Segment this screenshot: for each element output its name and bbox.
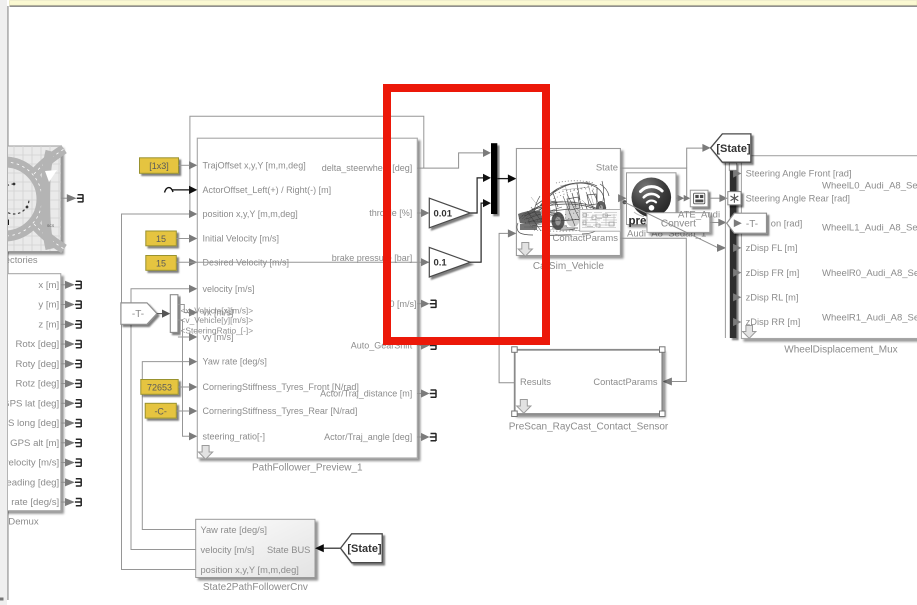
wire RayCast Results to CarSim input 2: [499, 233, 515, 382]
svg-text:WheelR1_Audi_A8_Sedan_1: WheelR1_Audi_A8_Sedan_1: [822, 313, 917, 324]
arrow into CarSim input 2: [508, 229, 517, 237]
svg-text:ActorOffset_Left(+) / Right(-): ActorOffset_Left(+) / Right(-) [m]: [203, 185, 332, 195]
svg-text:Yaw rate [deg/s]: Yaw rate [deg/s]: [201, 525, 268, 535]
block CarSim_Vehicle: [516, 149, 620, 256]
down-arrow badge WheelDisplacement_Mux: [743, 326, 756, 339]
car sketch speckle noise: [522, 181, 610, 231]
svg-text:heading [deg]: heading [deg]: [1, 477, 59, 488]
constant -C-: [145, 403, 176, 418]
svg-text:Actor/Traj_angle [deg]: Actor/Traj_angle [deg]: [324, 432, 412, 442]
svg-text:WheelDisplacement_Mux: WheelDisplacement_Mux: [784, 345, 897, 356]
down-arrow badge CarSim: [518, 243, 532, 257]
svg-text:0.01: 0.01: [434, 208, 453, 219]
svg-text:steering_ratio[-]: steering_ratio[-]: [203, 431, 266, 441]
constant 72653: [141, 380, 178, 395]
svg-text:WheelR0_Audi_A8_Sedan_1: WheelR0_Audi_A8_Sedan_1: [822, 268, 917, 279]
tiny vehicle 2: [0, 231, 5, 236]
terminator Actor/Traj_distance: [417, 389, 436, 397]
svg-text:velocity [m/s]: velocity [m/s]: [4, 458, 59, 469]
left panel divider line: [7, 6, 9, 600]
bus signal labels: [181, 305, 254, 335]
wire delta_steerwheel feedback loop top: [190, 116, 424, 214]
block PreScan_RayCast_Contact_Sensor (selected): [515, 350, 663, 414]
svg-text:[State]: [State]: [347, 543, 382, 555]
svg-text:CorneringStiffness_Tyres_Rear: CorneringStiffness_Tyres_Rear [N/rad]: [203, 406, 358, 416]
arrow diagonal into wheel bar: [717, 244, 726, 252]
svg-text:velocity [m/s]: velocity [m/s]: [201, 545, 255, 555]
svg-text:<x_Vehicle[x][m/s]>: <x_Vehicle[x][m/s]>: [181, 305, 254, 315]
terminator Actor/Traj_angle: [417, 433, 436, 441]
svg-text:Initial Velocity [m/s]: Initial Velocity [m/s]: [203, 234, 280, 244]
svg-text:State2PathFollowerCnv: State2PathFollowerCnv: [203, 582, 308, 593]
STATE block icon: [694, 193, 705, 204]
svg-text:PreScan_RayCast_Contact_Sensor: PreScan_RayCast_Contact_Sensor: [509, 422, 669, 433]
svg-text:<v_Vehicle[y][m/s]>: <v_Vehicle[y][m/s]>: [181, 315, 254, 325]
dashed trajectory arc: [0, 184, 29, 214]
svg-text:on [rad]: on [rad]: [771, 218, 803, 228]
gain 0.1: [429, 247, 470, 277]
demux bar (dark vertical): [730, 162, 737, 338]
wire gain 0.1 to mux: [470, 203, 483, 262]
svg-text:State BUS: State BUS: [267, 545, 310, 555]
Goto tag [State] (top right): [711, 134, 751, 162]
inset schematic thumbnail: [580, 210, 621, 232]
road ring: [0, 162, 42, 236]
svg-text:PathFollower_Preview_1: PathFollower_Preview_1: [252, 463, 363, 474]
arrow inside -T- tag: [734, 219, 742, 227]
wire CarSim to PreScan input: [618, 194, 626, 202]
down-arrow badge PathFollower: [199, 446, 213, 460]
arrow into State BUS (black, pointing left): [315, 544, 324, 552]
car wheels: [552, 212, 565, 230]
From tag -T- (right): [727, 213, 767, 233]
svg-text:brake pressure [bar]: brake pressure [bar]: [332, 253, 413, 263]
arrow into CarSim input 1 (black): [508, 174, 517, 182]
svg-text:zDisp RR [m]: zDisp RR [m]: [746, 317, 801, 327]
svg-text:delta_steerwheel [deg]: delta_steerwheel [deg]: [322, 163, 413, 173]
svg-text:Results: Results: [520, 377, 551, 387]
arrow into RayCast ContactParams: [662, 378, 672, 386]
svg-text:Roty [deg]: Roty [deg]: [15, 359, 59, 370]
svg-text:Actor/Traj_distance [m]: Actor/Traj_distance [m]: [320, 389, 412, 399]
terminator 0 [m/s]: [417, 300, 436, 308]
wire velocity feedback from State2PathFollowerCnv: [131, 289, 196, 550]
car front dark mass: [518, 211, 544, 225]
svg-text:x [m]: x [m]: [38, 280, 59, 291]
wire STATE block output: [708, 197, 720, 199]
svg-text:position x,y,Y [m,m,deg]: position x,y,Y [m,m,deg]: [201, 565, 299, 575]
svg-text:Yaw rate [deg/s]: Yaw rate [deg/s]: [203, 357, 267, 367]
wire -T- to bus selector: [157, 313, 163, 315]
block Demux: [0, 274, 61, 511]
constant [1x3]: [140, 158, 179, 174]
svg-text:-T-: -T-: [132, 309, 144, 320]
block PreScan Audi_A8_Sedan_1: [627, 173, 677, 225]
svg-text:zDisp FR [m]: zDisp FR [m]: [746, 268, 800, 278]
From tag [State] (bottom): [341, 534, 383, 563]
block STATE_Audi_A8_Sedan_1: [690, 190, 708, 207]
wire thin vertical left of bar: [724, 162, 726, 338]
block State2PathFollowerCnv: [196, 519, 315, 577]
wire PreScan output to STATE block: [676, 197, 683, 199]
block Convert: [647, 213, 710, 233]
info bar bottom border: [10, 5, 917, 7]
arrow into gain 0.1: [421, 258, 429, 266]
svg-text:position x,y,Y [m,m,deg]: position x,y,Y [m,m,deg]: [203, 209, 298, 219]
wire position feedback from State2PathFollowerCnv: [122, 214, 196, 570]
mux block (black bar): [491, 143, 497, 214]
wire CarSim ContactParams to RayCast: [620, 238, 686, 381]
arrow mux input 2 (black): [483, 174, 491, 182]
svg-text:Steering Angle Front [rad]: Steering Angle Front [rad]: [746, 169, 852, 179]
terminator Auto_GearShift: [417, 341, 436, 349]
svg-text:rate [deg/s]: rate [deg/s]: [11, 497, 59, 508]
terminator after Trajectories: [77, 194, 83, 202]
arrow into bus selector: [162, 310, 170, 318]
svg-text:GPS lat [deg]: GPS lat [deg]: [2, 398, 59, 409]
wire State output of CarSim: [620, 168, 686, 198]
small cell block on bar: [729, 163, 736, 171]
input port arrows: [189, 161, 197, 440]
svg-text:15: 15: [156, 259, 166, 269]
svg-text:Rotz [deg]: Rotz [deg]: [15, 379, 59, 390]
wire gain 0.01 to mux: [470, 178, 483, 213]
bus selector: [170, 295, 178, 333]
down-arrow badge RayCast: [517, 400, 531, 414]
svg-text:z [m]: z [m]: [38, 319, 59, 330]
wire State riser to Goto: [687, 148, 703, 168]
road SE exit: [34, 224, 64, 249]
svg-text:zDisp RL [m]: zDisp RL [m]: [746, 293, 799, 303]
demux output arrows and terminators x12: [61, 281, 81, 289]
wire [State] from tag to State BUS: [324, 547, 341, 549]
svg-text:ContactParams: ContactParams: [553, 233, 619, 244]
road right edge band: [46, 151, 51, 249]
svg-text:Rotx [deg]: Rotx [deg]: [15, 339, 59, 350]
svg-text:zDisp FL [m]: zDisp FL [m]: [746, 243, 798, 253]
scribble shading: [529, 181, 605, 235]
wire desired velocity to brake gain (crossing line): [176, 261, 429, 263]
svg-text:<SteeringRatio_[-]>: <SteeringRatio_[-]>: [181, 325, 254, 335]
svg-text:72653: 72653: [147, 383, 172, 393]
svg-text:GPS long [deg]: GPS long [deg]: [0, 418, 59, 429]
yellow info bar: [10, 1, 917, 6]
svg-text:WheelL1_Audi_A8_Sedan_1: WheelL1_Audi_A8_Sedan_1: [822, 223, 917, 234]
white wedge island: [45, 170, 57, 182]
selection handles: [512, 347, 665, 417]
From tag -T- (left): [121, 303, 157, 324]
block PathFollower_Preview_1: [197, 138, 417, 458]
arrow ActorOffset (black): [189, 186, 197, 194]
ActorOffset stub squiggle: [165, 188, 174, 193]
svg-text:ContactParams: ContactParams: [593, 377, 657, 387]
block Trajectories: [0, 146, 61, 252]
arrow into [State] goto: [702, 144, 710, 152]
svg-text:15: 15: [156, 234, 166, 244]
bar output arrows into block ports: [733, 169, 741, 326]
svg-text:0.1: 0.1: [434, 258, 448, 269]
PreScan wifi sphere logo: [632, 178, 672, 218]
svg-text:State: State: [596, 163, 618, 174]
bus selector output wires: [178, 305, 189, 437]
road NE exit: [34, 149, 64, 174]
svg-text:ATE_Audi: ATE_Audi: [678, 210, 720, 221]
tiny vehicle 1: [0, 220, 9, 226]
arrow mux input 3 (black): [483, 199, 491, 207]
svg-text:y [m]: y [m]: [38, 300, 59, 311]
svg-text:GPS alt [m]: GPS alt [m]: [10, 438, 59, 449]
arrow Trajectories output: [67, 194, 77, 202]
small star block on bar: [728, 192, 741, 205]
car sketch: [517, 181, 609, 235]
block WheelDisplacement_Mux: [741, 156, 917, 339]
svg-text:Steering Angle Rear [rad]: Steering Angle Rear [rad]: [746, 194, 850, 204]
svg-text:TrajOffset x,y,Y [m,m,deg]: TrajOffset x,y,Y [m,m,deg]: [203, 160, 306, 170]
left panel strip: [0, 0, 7, 605]
wire Convert output: [710, 222, 719, 224]
svg-text:-T-: -T-: [746, 219, 758, 230]
wire Trajectories output: [61, 197, 67, 199]
svg-text:WheelL0_Audi_A8_Sedan_1: WheelL0_Audi_A8_Sedan_1: [822, 180, 917, 191]
wire mux to CarSim: [497, 178, 508, 180]
svg-text:SCS: SCS: [47, 224, 55, 228]
wire delta_steerwheel to mux: [417, 153, 483, 168]
svg-text:Demux: Demux: [8, 517, 39, 528]
junction dot: [623, 200, 627, 204]
wire diagonal junction to zDisp FL: [625, 202, 719, 248]
constant 15 initial velocity: [146, 231, 177, 246]
wire yaw rate feedback from State2PathFollowerCnv: [142, 362, 195, 530]
bottom-left corner mark: [0, 598, 4, 601]
wire throttle to gain 0.01: [417, 212, 421, 214]
svg-text:velocity [m/s]: velocity [m/s]: [203, 284, 255, 294]
constant 15 desired velocity: [146, 256, 177, 271]
gain 0.01: [429, 198, 470, 228]
svg-text:-C-: -C-: [154, 406, 167, 416]
svg-text:[State]: [State]: [716, 143, 751, 155]
svg-text:0 [m/s]: 0 [m/s]: [389, 299, 416, 309]
arrow mux input 1: [483, 149, 491, 157]
svg-text:[1x3]: [1x3]: [149, 161, 169, 171]
